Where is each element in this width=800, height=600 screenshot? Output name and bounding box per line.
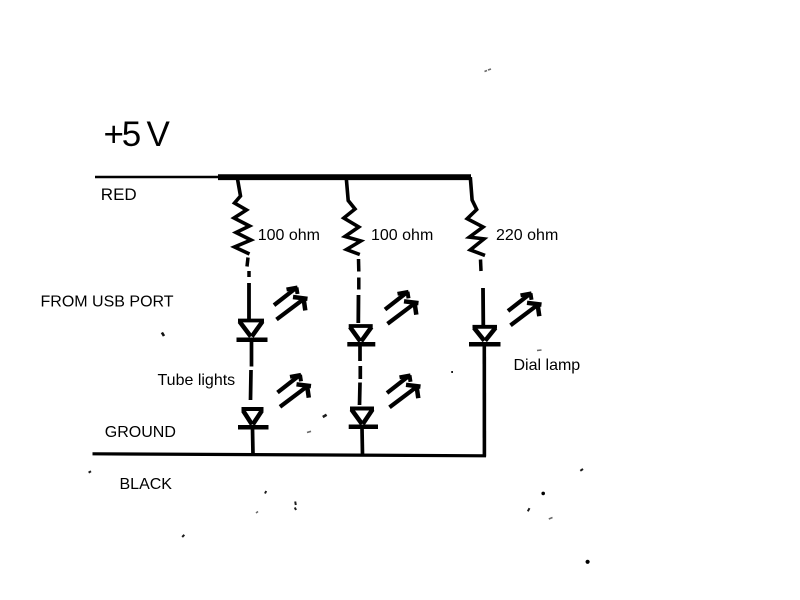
svg-text:220 ohm: 220 ohm bbox=[496, 227, 558, 244]
svg-text:FROM USB PORT: FROM USB PORT bbox=[41, 294, 174, 311]
svg-text:100 ohm: 100 ohm bbox=[371, 227, 433, 244]
svg-text:100 ohm: 100 ohm bbox=[258, 227, 320, 244]
svg-text:+5 V: +5 V bbox=[104, 115, 171, 154]
svg-text:Dial lamp: Dial lamp bbox=[514, 357, 581, 374]
svg-text:Tube lights: Tube lights bbox=[158, 372, 236, 389]
svg-text:RED: RED bbox=[101, 185, 137, 204]
svg-text:GROUND: GROUND bbox=[105, 424, 176, 441]
svg-text:BLACK: BLACK bbox=[120, 476, 173, 493]
